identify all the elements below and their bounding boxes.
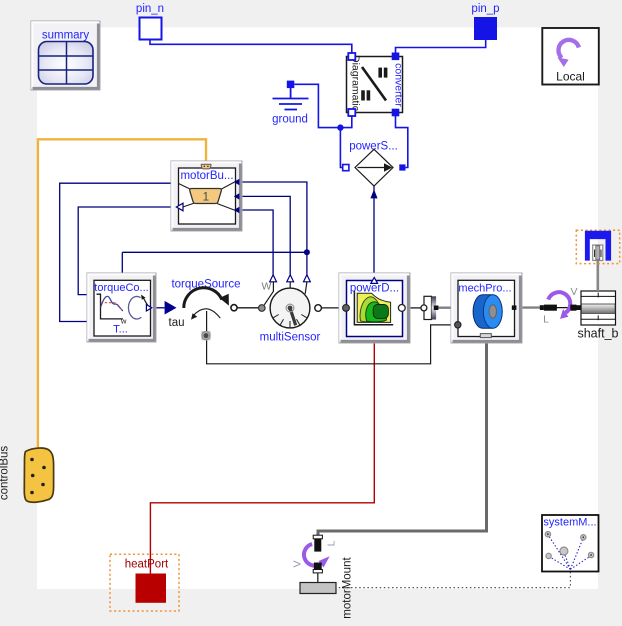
svg-text:heatPort: heatPort: [125, 559, 169, 571]
svg-text:T...: T...: [113, 324, 128, 336]
svg-text:V: V: [291, 560, 303, 567]
svg-text:Local: Local: [556, 70, 585, 84]
svg-text:multiSensor: multiSensor: [260, 332, 321, 344]
svg-text:motorBu...: motorBu...: [180, 170, 233, 182]
svg-text:mechPro...: mechPro...: [458, 283, 511, 295]
svg-text:converter: converter: [393, 63, 405, 107]
svg-text:1: 1: [202, 190, 209, 204]
svg-text:torqueCo...: torqueCo...: [94, 282, 148, 294]
svg-text:L: L: [543, 314, 549, 326]
svg-text:motorMount: motorMount: [342, 557, 354, 619]
svg-text:shaft_b: shaft_b: [577, 327, 618, 341]
svg-text:Diagramatic: Diagramatic: [350, 55, 362, 111]
svg-text:W: W: [262, 281, 272, 293]
svg-text:L: L: [326, 540, 338, 546]
svg-text:tau: tau: [169, 317, 185, 329]
svg-text:V: V: [570, 286, 577, 298]
svg-text:controlBus: controlBus: [0, 446, 11, 501]
svg-text:pin_p: pin_p: [471, 3, 499, 15]
svg-text:systemM...: systemM...: [543, 517, 596, 529]
svg-text:pin_n: pin_n: [136, 3, 164, 15]
svg-text:ground: ground: [272, 114, 308, 126]
svg-text:summary: summary: [42, 30, 90, 42]
